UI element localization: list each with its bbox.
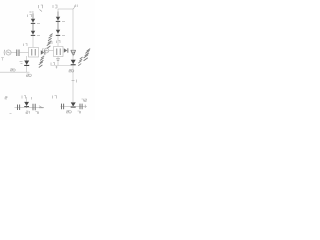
lead tick 15 bbox=[37, 34, 40, 36]
right rail long vertical bbox=[72, 9, 74, 102]
stem between diodes left bbox=[32, 14, 34, 31]
vertical wire bbox=[26, 97, 28, 107]
box inner line bbox=[32, 49, 35, 56]
wire AC to box bbox=[49, 50, 54, 52]
label 40 bbox=[78, 111, 81, 113]
transistor blob (filled) bbox=[24, 61, 29, 67]
diode D4 top-right (filled) bbox=[56, 30, 60, 36]
label 16b bbox=[49, 42, 53, 45]
node 12 label (tiny text) bbox=[28, 15, 32, 18]
junction dot right bbox=[72, 106, 74, 108]
wire: top-left circuit vertical bus bbox=[32, 11, 34, 47]
diode D1 top-left (filled) bbox=[31, 19, 35, 24]
lead tick 14 bbox=[37, 23, 40, 25]
tiny marks near hline left end (label 22) bbox=[51, 63, 55, 66]
stem between diodes right bbox=[57, 12, 59, 30]
FIG. 3 label far right (rotated italic) bbox=[84, 49, 91, 61]
wire AC to cap bbox=[11, 52, 16, 54]
label 38 bbox=[67, 111, 72, 114]
wire: top bus to right rail bbox=[58, 8, 73, 10]
node 18 label bbox=[53, 5, 57, 8]
diode D2 top-left (filled) bbox=[31, 31, 35, 36]
ticks left of blob bbox=[20, 62, 23, 64]
ground on right rail bbox=[71, 50, 76, 55]
lead tick bbox=[62, 34, 65, 36]
label 16 above box bbox=[24, 44, 28, 47]
tick and label on rail y80 bbox=[72, 80, 75, 82]
FIG. 4 label (rotated italic) bbox=[39, 56, 44, 68]
stub from right box down bbox=[57, 57, 59, 66]
bottom bus right bbox=[61, 105, 88, 107]
diode right of box top-left bbox=[41, 50, 46, 54]
AC source top-right bbox=[42, 48, 45, 53]
label 34 bbox=[36, 112, 39, 114]
bottom-left mini figure: vertical wire bbox=[26, 56, 28, 72]
wire: top-left top hook bbox=[30, 11, 33, 13]
lead tick bbox=[62, 20, 65, 22]
long horizontal wire to left edge bbox=[0, 71, 30, 73]
box (transducer) top-right bbox=[54, 47, 64, 57]
far-left tiny label 2 bbox=[5, 97, 7, 99]
diode D3 top-right (filled) bbox=[56, 17, 60, 22]
box (transducer) top-left bbox=[29, 48, 39, 58]
diode blob on right rail (filled) bbox=[71, 102, 76, 107]
label 28 below bbox=[27, 74, 32, 77]
node 10 label (tiny text) bbox=[39, 5, 43, 12]
bottom-right cluster: label 36 bbox=[53, 96, 57, 99]
hook at rail top bbox=[73, 6, 75, 10]
capacitor C1 top-left bbox=[17, 50, 19, 57]
junction dot bbox=[26, 107, 28, 109]
tiny mark above bbox=[31, 97, 33, 100]
FIG. 6 label between columns (rotated italic) bbox=[47, 34, 53, 49]
box inner line bbox=[57, 49, 60, 56]
diode right of box top-right bbox=[64, 48, 69, 52]
capacitor right on bus bbox=[80, 104, 82, 110]
bottom bus bbox=[15, 106, 45, 108]
FIG. 2 label right of blob (rotated italic) bbox=[78, 57, 82, 66]
tiny marks top-left corner of this figure bbox=[1, 58, 4, 61]
wire cap to box bbox=[19, 52, 28, 54]
label 20 above wire bbox=[11, 69, 16, 71]
transistor blob on right rail (filled) bbox=[71, 60, 76, 65]
arrow mark right bbox=[39, 106, 44, 108]
wire: top-right circuit vertical bus bbox=[57, 9, 59, 46]
label 26 below blob bbox=[69, 70, 74, 73]
tiny mark lower bbox=[10, 113, 12, 115]
label 42 bbox=[82, 99, 87, 101]
bottom-left cluster: label 30 bbox=[22, 96, 26, 99]
capacitor left on bus bbox=[62, 104, 64, 110]
AC source top-left bbox=[3, 50, 6, 55]
diode blob (filled) bbox=[24, 102, 29, 107]
capacitor on bus left bbox=[18, 105, 20, 111]
capacitor mid bbox=[33, 104, 35, 110]
label 32 bbox=[26, 111, 30, 114]
wire: hline into right rail at y65.5 bbox=[51, 65, 74, 67]
label 14 above right box bbox=[57, 41, 61, 44]
